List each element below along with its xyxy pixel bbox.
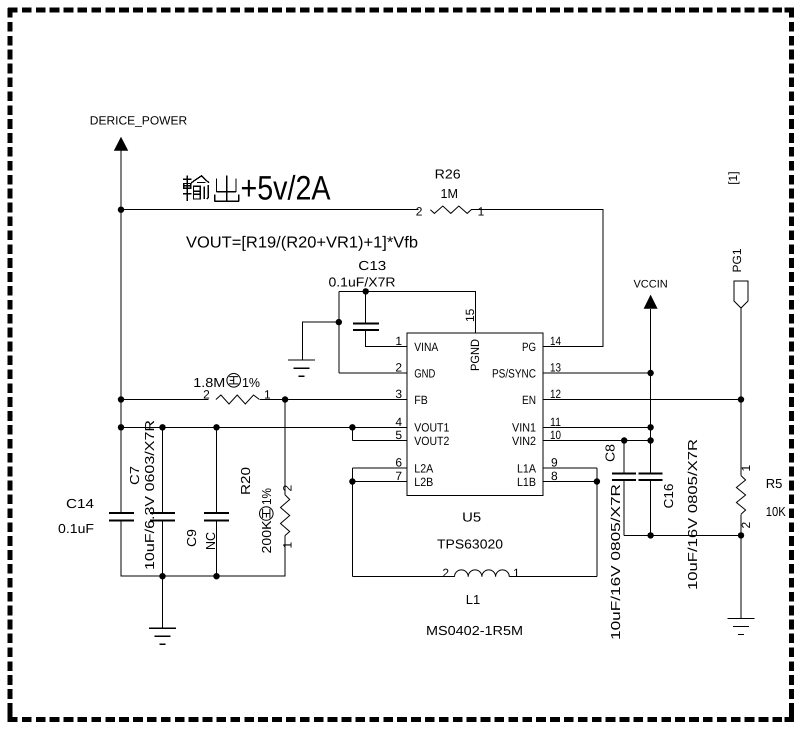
svg-text:VOUT1: VOUT1 — [414, 421, 449, 435]
svg-text:MS0402-1R5M: MS0402-1R5M — [426, 623, 523, 638]
junction: C13 top — [363, 288, 369, 294]
svg-text:2: 2 — [395, 361, 402, 375]
wire: PG1 to EN to R5 — [740, 308, 742, 476]
capacitor C14 plates — [109, 513, 134, 521]
IC right pin numbers — [550, 334, 561, 483]
junction: output net at power rail — [118, 207, 124, 213]
svg-text:2: 2 — [281, 485, 295, 492]
wire: C13 left branch down to GND pin2 — [338, 291, 340, 373]
ground (C13 branch) — [288, 360, 315, 376]
svg-text:PS/SYNC: PS/SYNC — [492, 366, 536, 380]
svg-text:EN: EN — [522, 393, 536, 407]
IC left pin names — [414, 340, 449, 489]
wire: pin1 VINA stub from C13 bottom — [366, 330, 407, 347]
capacitor C16 plates — [639, 474, 663, 481]
power symbol VCCIN — [633, 279, 667, 309]
svg-text:5: 5 — [395, 428, 402, 442]
C9 leads — [216, 427, 218, 576]
junction: bottom net at C9 — [213, 573, 219, 579]
IC U5 body — [407, 333, 543, 496]
resistor R19 — [216, 395, 260, 404]
wire: VOUT net y=427.3 — [121, 426, 407, 428]
power symbol DERICE_POWER — [90, 114, 188, 151]
wire: PS/SYNC pin13 net — [543, 372, 651, 374]
junction: VCCIN at VIN2 — [647, 437, 653, 443]
svg-text:11: 11 — [550, 415, 561, 429]
svg-text:L1: L1 — [466, 592, 480, 607]
svg-text:NC: NC — [203, 532, 218, 550]
junction: VOUT net at C9 — [213, 424, 219, 430]
svg-text:1: 1 — [281, 542, 295, 549]
junction: VIN2 net at C8 tap — [621, 437, 627, 443]
IC right pin names — [492, 340, 536, 489]
capacitor C7/C9 leads — [163, 427, 217, 576]
wire: bottom left net y=576.2 — [121, 575, 285, 577]
svg-text:2: 2 — [442, 566, 449, 580]
junction: VOUT net at power rail — [118, 424, 124, 430]
wire: inductor bottom net — [352, 468, 597, 577]
svg-text:12: 12 — [550, 387, 561, 401]
svg-text:14: 14 — [550, 334, 561, 348]
junction: VOUT net at C7 — [159, 424, 165, 430]
resistor R5 (vertical) — [736, 476, 745, 515]
svg-text:0.1uF/X7R: 0.1uF/X7R — [329, 275, 396, 290]
svg-text:VIN1: VIN1 — [512, 421, 536, 435]
wire: L1B pin8 stub — [543, 481, 597, 483]
svg-text:R26: R26 — [435, 166, 461, 181]
junction: FB net at R20 tap — [282, 396, 288, 402]
svg-text:10uF/6.3V 0603/X7R: 10uF/6.3V 0603/X7R — [142, 420, 157, 570]
wire: ground stub under C7 — [162, 576, 164, 628]
svg-text:U5: U5 — [462, 510, 481, 525]
svg-text:9: 9 — [551, 456, 558, 470]
svg-text:1: 1 — [739, 465, 753, 472]
svg-text:4: 4 — [395, 415, 402, 429]
junction: bottom net at C7 — [159, 573, 165, 579]
junction: bottom right net at R5 — [738, 532, 744, 538]
svg-text:GND: GND — [414, 366, 435, 380]
svg-text:2: 2 — [739, 522, 753, 529]
junction: FB net at power rail — [118, 396, 124, 402]
svg-text:PG1: PG1 — [730, 248, 744, 272]
svg-text:L2B: L2B — [414, 475, 433, 489]
wire: C13 top net to pin15 — [339, 291, 476, 333]
svg-text:L1A: L1A — [517, 461, 536, 475]
value 200K(tol)1% (rotated) — [259, 488, 274, 554]
wire: DERICE_POWER vertical rail x=121 — [120, 151, 122, 513]
wire: VCCIN rail — [650, 309, 652, 474]
svg-text:1M: 1M — [440, 186, 458, 201]
wire: L2A stub and left inductor drop — [352, 468, 407, 577]
svg-text:VOUT2: VOUT2 — [414, 434, 449, 448]
svg-text:C13: C13 — [358, 258, 386, 273]
svg-text:0.1uF: 0.1uF — [58, 521, 94, 536]
svg-text:VINA: VINA — [414, 340, 438, 354]
svg-text:6: 6 — [395, 456, 402, 470]
svg-text:PGND: PGND — [468, 339, 482, 371]
svg-text:R5: R5 — [766, 476, 783, 491]
wire: VOUT2 stub — [352, 427, 407, 440]
junction: VOUT net at VOUT2 tap — [349, 424, 355, 430]
IC left pin numbers — [395, 334, 402, 483]
resistor R20 (vertical) — [281, 495, 290, 536]
svg-text:10K: 10K — [766, 504, 786, 519]
junction: EN net at PG1/R5 — [738, 396, 744, 402]
svg-text:10uF/16V 0805/X7R: 10uF/16V 0805/X7R — [685, 439, 700, 590]
ground (under C7) — [149, 628, 176, 644]
wire: ground stub from C13 branch — [303, 322, 339, 360]
svg-text:1%: 1% — [242, 375, 260, 390]
capacitor C7 plates — [150, 513, 175, 521]
junction: VCCIN at PS/SYNC — [647, 370, 653, 376]
junction: bottom right net at C16 — [647, 532, 653, 538]
svg-text:15: 15 — [463, 308, 477, 322]
big label 輸出 (drawn strokes) — [183, 176, 239, 202]
svg-text:10: 10 — [550, 428, 561, 442]
junction: VCCIN at VIN1 — [647, 424, 653, 430]
svg-text:3: 3 — [395, 387, 402, 401]
svg-text:L1B: L1B — [517, 475, 536, 489]
capacitor C9 plates — [204, 513, 229, 521]
svg-text:200K: 200K — [259, 520, 274, 553]
svg-text:2: 2 — [203, 388, 210, 402]
label R19 with tolerance symbol — [193, 374, 260, 391]
svg-text:2: 2 — [416, 205, 423, 219]
wire: L2B stub — [352, 481, 407, 483]
svg-text:C9: C9 — [184, 529, 199, 547]
wire: VIN1 pin11 net — [543, 426, 651, 428]
svg-text:1: 1 — [395, 334, 402, 348]
svg-text:L2A: L2A — [414, 461, 433, 475]
resistor R26 — [430, 206, 471, 213]
svg-text:PG: PG — [522, 340, 536, 354]
svg-text:VIN2: VIN2 — [512, 434, 536, 448]
svg-text:1%: 1% — [259, 488, 274, 505]
connector PG1 — [730, 248, 748, 308]
wire: C8 branch — [623, 441, 625, 474]
svg-text:10uF/16V 0805/X7R: 10uF/16V 0805/X7R — [608, 484, 623, 640]
svg-text:C7: C7 — [127, 466, 142, 485]
svg-text:7: 7 — [395, 469, 402, 483]
wire: R20 branch vertical — [284, 400, 286, 495]
wire: VIN2 pin10 net — [543, 440, 651, 442]
wire: L1A pin9 stub — [543, 467, 597, 469]
svg-text:TPS63020: TPS63020 — [437, 537, 503, 552]
svg-text:R20: R20 — [238, 467, 253, 495]
svg-text:+5v/2A: +5v/2A — [241, 170, 331, 208]
svg-text:C14: C14 — [66, 496, 94, 511]
junction: L1B node — [594, 478, 600, 484]
capacitor C8 plates — [612, 474, 636, 481]
ground (under R5) — [728, 619, 755, 635]
svg-text:VCCIN: VCCIN — [633, 279, 667, 291]
wire: bottom right net y=535.4 — [624, 534, 741, 536]
svg-text:DERICE_POWER: DERICE_POWER — [90, 114, 188, 128]
svg-text:[1]: [1] — [726, 171, 740, 184]
svg-text:C8: C8 — [603, 444, 618, 462]
svg-text:1: 1 — [478, 205, 485, 219]
svg-text:FB: FB — [414, 393, 428, 407]
wire: pin2 GND stub — [339, 372, 407, 374]
capacitor C13 plates — [353, 324, 379, 331]
wire: EN pin12 net — [543, 399, 741, 401]
junction: L2B node — [349, 478, 355, 484]
svg-text:8: 8 — [551, 469, 558, 483]
svg-text:1: 1 — [513, 566, 520, 580]
junction: GND branch near C13 — [336, 319, 342, 325]
svg-text:1: 1 — [264, 388, 271, 402]
wire: FB net y=399.5 — [121, 399, 209, 401]
svg-text:VOUT=[R19/(R20+VR1)+1]*Vfb: VOUT=[R19/(R20+VR1)+1]*Vfb — [186, 235, 418, 252]
inductor L1 — [455, 570, 510, 577]
wire: top output net y=209.7 — [121, 209, 419, 211]
svg-text:13: 13 — [550, 361, 561, 375]
svg-text:C16: C16 — [661, 484, 676, 509]
